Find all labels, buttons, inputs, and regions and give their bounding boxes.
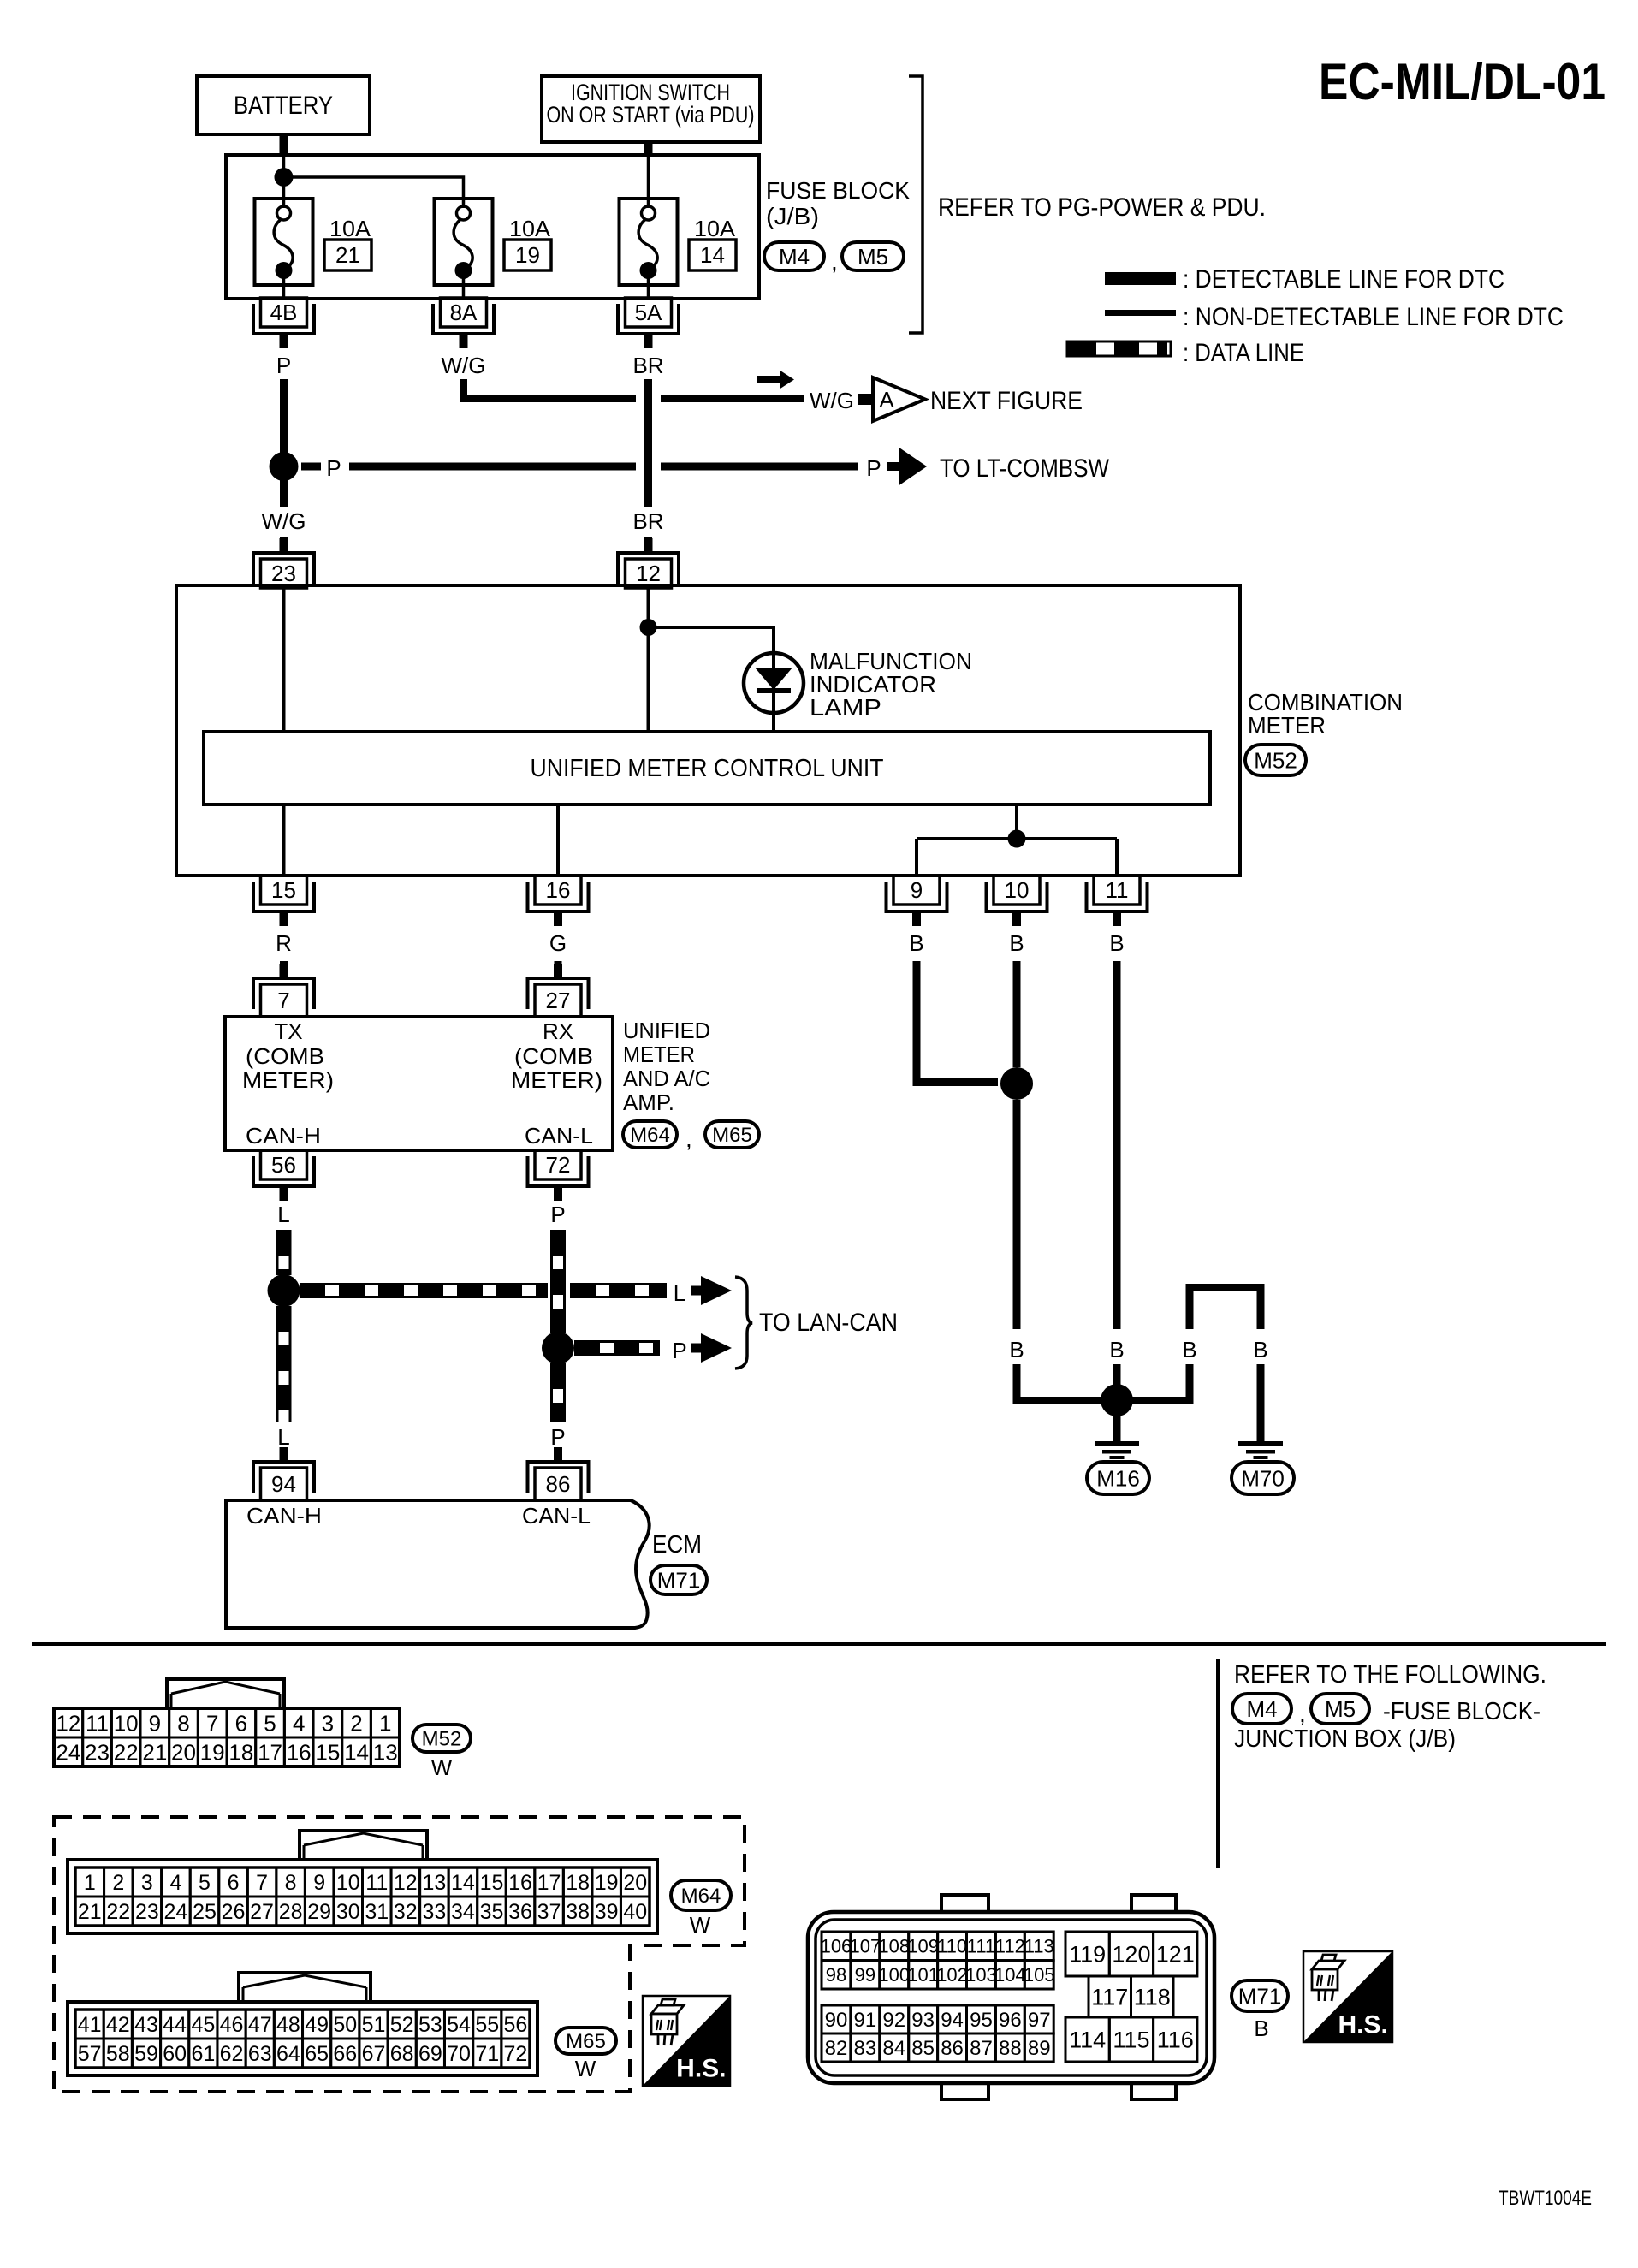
wire P stub to connector 23 <box>280 537 288 551</box>
ignition switch box <box>542 76 760 142</box>
svg-text:101: 101 <box>907 1964 939 1986</box>
svg-text:11: 11 <box>1106 877 1129 903</box>
wire battery to fuse block <box>280 134 288 157</box>
fuse block (J/B) box <box>226 155 759 299</box>
svg-text:W: W <box>575 2056 596 2081</box>
svg-text:49: 49 <box>305 2013 329 2037</box>
svg-text:45: 45 <box>191 2013 215 2037</box>
connector ref M4 bottom <box>1232 1694 1291 1724</box>
svg-text:B: B <box>1182 1337 1196 1363</box>
svg-text:90: 90 <box>825 2009 848 2032</box>
svg-text:15: 15 <box>315 1739 340 1765</box>
svg-text:23: 23 <box>271 561 296 586</box>
svg-text:42: 42 <box>106 2013 130 2037</box>
svg-text:106: 106 <box>821 1936 852 1957</box>
svg-text:M64: M64 <box>630 1124 670 1147</box>
svg-text:CAN-L: CAN-L <box>522 1503 591 1529</box>
M71 shell outer <box>808 1912 1214 2083</box>
svg-text:84: 84 <box>882 2037 905 2060</box>
svg-text:-FUSE BLOCK-: -FUSE BLOCK- <box>1383 1698 1540 1725</box>
svg-text:23: 23 <box>85 1739 110 1765</box>
M71 pin grid upper left <box>822 1932 851 1961</box>
svg-text:1: 1 <box>84 1871 96 1895</box>
svg-text:94: 94 <box>941 2009 964 2032</box>
svg-text:52: 52 <box>390 2013 414 2037</box>
connector 16 <box>535 876 581 905</box>
svg-text:62: 62 <box>220 2042 244 2066</box>
connector ref M71 bottom <box>1231 1980 1288 2011</box>
svg-text:11: 11 <box>365 1871 388 1895</box>
svg-text:CAN-H: CAN-H <box>246 1123 321 1149</box>
svg-text:8: 8 <box>177 1710 189 1736</box>
M65 tab <box>239 1973 371 2002</box>
connector ref M52 <box>1245 745 1306 775</box>
svg-text:14: 14 <box>451 1871 475 1895</box>
wire ignition to fuse block <box>644 142 653 157</box>
svg-text:CAN-H: CAN-H <box>246 1503 322 1529</box>
M71 pin grid 117-118 <box>1089 1976 1131 2017</box>
connector 56 <box>261 1150 307 1179</box>
wire B pin10 to bus <box>1013 1364 1021 1404</box>
data line P upper <box>550 1230 553 1333</box>
svg-text:16: 16 <box>287 1739 312 1765</box>
svg-text:54: 54 <box>447 2013 471 2037</box>
svg-text:18: 18 <box>566 1871 590 1895</box>
svg-text:W/G: W/G <box>442 353 486 378</box>
connector 8A <box>441 298 487 327</box>
svg-text:2: 2 <box>112 1871 124 1895</box>
svg-text:BR: BR <box>632 353 663 378</box>
svg-text:10: 10 <box>336 1871 360 1895</box>
svg-text:33: 33 <box>422 1900 446 1924</box>
svg-text:107: 107 <box>849 1936 881 1957</box>
svg-text:TO LAN-CAN: TO LAN-CAN <box>759 1309 898 1337</box>
connector 11 <box>1094 876 1140 905</box>
svg-text:P: P <box>276 353 291 378</box>
svg-text:51: 51 <box>362 2013 386 2037</box>
svg-text:37: 37 <box>537 1900 561 1924</box>
wire g5 to ground M70 <box>1257 1364 1265 1441</box>
connector ref M65 <box>705 1121 759 1148</box>
svg-text:3: 3 <box>141 1871 153 1895</box>
connector 86 <box>535 1468 581 1500</box>
junction node battery feed <box>275 168 294 187</box>
M64 outer box <box>68 1860 657 1933</box>
svg-text:B: B <box>909 930 923 956</box>
svg-text:64: 64 <box>276 2042 300 2066</box>
connector ref M64 <box>623 1121 677 1148</box>
fuse 21 (10A) <box>255 199 313 285</box>
svg-text:102: 102 <box>936 1964 968 1986</box>
svg-text:109: 109 <box>907 1936 939 1957</box>
svg-text:M71: M71 <box>657 1567 701 1593</box>
svg-text:M71: M71 <box>1238 1983 1282 2009</box>
svg-text:NEXT FIGURE: NEXT FIGURE <box>930 387 1083 415</box>
svg-text:RX: RX <box>543 1018 573 1044</box>
svg-text:AMP.: AMP. <box>623 1089 674 1115</box>
connector 9 <box>893 876 940 905</box>
M71 tab bottom left <box>941 2081 988 2099</box>
svg-text:96: 96 <box>999 2009 1022 2032</box>
svg-text:,: , <box>1299 1701 1306 1727</box>
fuse 14 (10A) <box>620 199 678 285</box>
svg-text:43: 43 <box>134 2013 158 2037</box>
svg-text:82: 82 <box>825 2037 848 2060</box>
malfunction indicator lamp <box>744 653 804 713</box>
svg-text:METER): METER) <box>242 1067 334 1093</box>
svg-text:94: 94 <box>271 1471 296 1497</box>
svg-text:TO LT-COMBSW: TO LT-COMBSW <box>940 454 1110 483</box>
value box 21 <box>324 240 371 270</box>
svg-text:66: 66 <box>333 2042 357 2066</box>
connector ref M4 <box>764 242 824 270</box>
svg-text:22: 22 <box>114 1739 139 1765</box>
svg-text:70: 70 <box>447 2042 471 2066</box>
svg-text:W: W <box>431 1754 453 1780</box>
svg-text:36: 36 <box>508 1900 532 1924</box>
svg-text:92: 92 <box>882 2009 905 2032</box>
M65 outer box <box>68 2002 537 2075</box>
svg-text:61: 61 <box>191 2042 215 2066</box>
connector ref M52 bottom <box>412 1725 471 1752</box>
wire P to LT-COMBSW <box>349 463 636 471</box>
svg-text:11: 11 <box>86 1710 109 1736</box>
connector 12 <box>626 559 672 588</box>
svg-text:22: 22 <box>106 1900 130 1924</box>
svg-text:B: B <box>1109 930 1124 956</box>
svg-text:W: W <box>690 1912 711 1938</box>
wire B pin11 down <box>1113 961 1121 1329</box>
svg-text:19: 19 <box>595 1871 619 1895</box>
wire BR down <box>644 379 652 507</box>
svg-text:44: 44 <box>163 2013 187 2037</box>
svg-text:TBWT1004E: TBWT1004E <box>1499 2187 1592 2210</box>
M65 pin grid <box>75 2010 104 2039</box>
legend non-detectable sample <box>1105 310 1176 316</box>
svg-text:4: 4 <box>293 1710 305 1736</box>
connector ref M5 <box>842 242 904 270</box>
connector 72 <box>535 1150 581 1179</box>
connector 7 <box>261 984 307 1017</box>
M52 tab <box>167 1679 284 1708</box>
svg-text:24: 24 <box>56 1739 80 1765</box>
data line L stub <box>280 1450 288 1463</box>
arrow TO LT-COMBSW <box>887 462 900 471</box>
svg-text:H.S.: H.S. <box>1338 2010 1388 2039</box>
arrow L to LAN-CAN <box>691 1286 703 1296</box>
svg-text:24: 24 <box>164 1900 188 1924</box>
svg-text:M64: M64 <box>681 1885 721 1908</box>
svg-text:M4: M4 <box>1246 1696 1277 1722</box>
svg-text:91: 91 <box>853 2009 876 2032</box>
svg-text:116: 116 <box>1157 2028 1194 2053</box>
svg-text:METER: METER <box>623 1042 695 1067</box>
svg-text:85: 85 <box>911 2037 935 2060</box>
wire battery feed into fuse 21 <box>282 155 286 208</box>
svg-text:29: 29 <box>307 1900 331 1924</box>
svg-text:7: 7 <box>256 1871 268 1895</box>
svg-text:46: 46 <box>220 2013 244 2037</box>
wire B pin11 to bus <box>1113 1364 1121 1404</box>
svg-text:14: 14 <box>700 242 725 268</box>
legend data line sample <box>1067 341 1171 356</box>
wire ignition feed to fuse 14 <box>647 155 650 208</box>
svg-text:60: 60 <box>163 2042 187 2066</box>
svg-text:117: 117 <box>1091 1985 1128 2010</box>
svg-text:111: 111 <box>967 1936 995 1957</box>
wire UMCU to pin 15 <box>282 804 286 876</box>
junction node P <box>270 452 299 481</box>
svg-text:28: 28 <box>279 1900 303 1924</box>
svg-text:P: P <box>672 1338 686 1363</box>
svg-text:B: B <box>1253 1337 1267 1363</box>
M64 pin grid <box>75 1867 104 1897</box>
wire pin12 to UMCU <box>647 589 650 732</box>
ground ref M70 <box>1231 1462 1294 1494</box>
svg-text:23: 23 <box>135 1900 159 1924</box>
ECM box <box>226 1500 650 1628</box>
svg-text:3: 3 <box>322 1710 334 1736</box>
value box 14 <box>689 240 736 270</box>
ground bus bottom <box>1013 1397 1194 1404</box>
svg-text:59: 59 <box>134 2042 158 2066</box>
svg-text:7: 7 <box>206 1710 218 1736</box>
svg-text:BATTERY: BATTERY <box>234 92 333 120</box>
svg-text:G: G <box>549 930 567 956</box>
svg-text:34: 34 <box>451 1900 475 1924</box>
dash P right of junction <box>301 463 321 471</box>
svg-text:10A: 10A <box>509 216 551 241</box>
svg-text:10: 10 <box>1005 877 1030 903</box>
svg-text:88: 88 <box>999 2037 1022 2060</box>
svg-text:: NON-DETECTABLE LINE FOR DTC: : NON-DETECTABLE LINE FOR DTC <box>1183 303 1564 331</box>
brace TO LAN-CAN <box>735 1277 752 1369</box>
small arrow right <box>757 376 781 383</box>
svg-text:19: 19 <box>200 1739 225 1765</box>
value box 19 <box>504 240 551 270</box>
junction node ground bus bottom <box>1101 1384 1133 1416</box>
svg-text:65: 65 <box>305 2042 329 2066</box>
svg-text:86: 86 <box>941 2037 964 2060</box>
wire B pin9 down <box>913 961 921 1086</box>
svg-text:A: A <box>879 387 894 413</box>
svg-text:10A: 10A <box>329 216 371 241</box>
wire branch to MIL lamp <box>649 627 774 654</box>
svg-text:6: 6 <box>228 1871 240 1895</box>
svg-text:17: 17 <box>537 1871 561 1895</box>
svg-text:13: 13 <box>422 1871 446 1895</box>
battery box <box>197 76 370 134</box>
svg-text:13: 13 <box>373 1739 398 1765</box>
svg-text:67: 67 <box>362 2042 386 2066</box>
svg-text:TX: TX <box>274 1018 302 1044</box>
wire BR stub to connector 12 <box>644 537 652 551</box>
svg-text:121: 121 <box>1156 1942 1195 1968</box>
svg-text:47: 47 <box>248 2013 272 2037</box>
M71 shell inner <box>816 1920 1207 2075</box>
junction node CAN-L <box>542 1332 574 1364</box>
svg-text:,: , <box>831 248 838 275</box>
svg-text:M16: M16 <box>1096 1465 1140 1491</box>
wire W/G after BR crossing <box>661 395 804 402</box>
svg-text:M65: M65 <box>712 1124 752 1147</box>
unified meter and A/C amp box <box>225 1017 613 1150</box>
svg-text:H.S.: H.S. <box>676 2055 726 2083</box>
svg-text:97: 97 <box>1028 2009 1051 2032</box>
svg-text:72: 72 <box>546 1152 571 1178</box>
svg-text:21: 21 <box>335 242 360 268</box>
svg-text:ON OR START (via PDU): ON OR START (via PDU) <box>547 102 755 128</box>
svg-text:98: 98 <box>826 1964 846 1986</box>
svg-text:5: 5 <box>264 1710 276 1736</box>
svg-text:UNIFIED: UNIFIED <box>623 1018 710 1043</box>
svg-text:ECM: ECM <box>652 1531 702 1559</box>
svg-text:8A: 8A <box>450 300 478 325</box>
M64 tab <box>300 1831 427 1860</box>
svg-text:12: 12 <box>636 561 661 586</box>
svg-text:119: 119 <box>1069 1942 1106 1968</box>
bracket fuse block note <box>909 76 923 333</box>
wire P down to junction <box>280 379 288 453</box>
svg-text:113: 113 <box>1024 1936 1054 1957</box>
wire junction to fuse 19 <box>284 177 464 208</box>
svg-text:4B: 4B <box>270 300 298 325</box>
wire B pin10 lower <box>1013 1100 1021 1329</box>
connector 23 <box>261 559 307 588</box>
separator line <box>32 1642 1606 1646</box>
svg-text:25: 25 <box>193 1900 217 1924</box>
svg-text:: DETECTABLE LINE FOR DTC: : DETECTABLE LINE FOR DTC <box>1183 265 1504 294</box>
fuse 19 (10A) <box>435 199 493 285</box>
data line P stub <box>554 1450 562 1463</box>
dash before A triangle <box>858 394 873 405</box>
connector ref M65 bottom <box>555 2028 616 2054</box>
wire UMCU to pin 16 <box>556 804 560 876</box>
junction node CAN-H <box>268 1274 300 1307</box>
data line L to LAN-CAN <box>300 1283 548 1285</box>
svg-text:27: 27 <box>546 988 571 1013</box>
svg-text:103: 103 <box>965 1964 997 1986</box>
svg-text:26: 26 <box>222 1900 246 1924</box>
connector ref M71 <box>650 1565 707 1594</box>
M71 tab bottom right <box>1131 2081 1176 2099</box>
svg-text:L: L <box>277 1202 289 1227</box>
connector 10 <box>994 876 1040 905</box>
svg-text:P: P <box>326 455 341 481</box>
svg-text:UNIFIED METER CONTROL UNIT: UNIFIED METER CONTROL UNIT <box>531 755 884 782</box>
connector ref M5 bottom <box>1311 1694 1369 1724</box>
svg-text:METER): METER) <box>511 1067 602 1093</box>
wire R stub <box>280 961 288 976</box>
svg-text:14: 14 <box>344 1739 369 1765</box>
wire B g4 to bus <box>1186 1364 1194 1404</box>
svg-text:86: 86 <box>546 1471 571 1497</box>
svg-text:48: 48 <box>276 2013 300 2037</box>
svg-text:16: 16 <box>508 1871 532 1895</box>
svg-text:9: 9 <box>911 877 923 903</box>
dashed harness box <box>54 1817 745 2092</box>
connector 5A <box>626 298 672 327</box>
svg-text:63: 63 <box>248 2042 272 2066</box>
svg-text:M52: M52 <box>422 1728 462 1751</box>
svg-text:AND A/C: AND A/C <box>623 1066 710 1091</box>
svg-text:5: 5 <box>199 1871 211 1895</box>
svg-text:10A: 10A <box>694 216 736 241</box>
data line P to LAN-CAN <box>574 1340 660 1343</box>
svg-text:9: 9 <box>149 1710 161 1736</box>
svg-text:M4: M4 <box>779 244 810 270</box>
svg-text:39: 39 <box>595 1900 619 1924</box>
svg-text:87: 87 <box>970 2037 993 2060</box>
harness side icon 1 <box>643 1996 730 2086</box>
svg-text:12: 12 <box>56 1710 80 1736</box>
svg-text:110: 110 <box>937 1936 967 1957</box>
M71 pin grid 114-116 <box>1065 2017 1109 2062</box>
svg-text:8: 8 <box>285 1871 297 1895</box>
svg-text:7: 7 <box>277 988 289 1013</box>
svg-text:M65: M65 <box>566 2030 606 2053</box>
svg-text:4: 4 <box>169 1871 181 1895</box>
ground bus inside meter <box>917 837 1117 840</box>
svg-text:112: 112 <box>995 1936 1025 1957</box>
svg-text:JUNCTION BOX (J/B): JUNCTION BOX (J/B) <box>1234 1725 1456 1753</box>
svg-text:20: 20 <box>171 1739 196 1765</box>
data line L lower <box>276 1306 279 1422</box>
svg-text:50: 50 <box>333 2013 357 2037</box>
svg-text:2: 2 <box>350 1710 362 1736</box>
junction node ground bus <box>1008 830 1026 848</box>
wire W/G corner <box>460 379 467 402</box>
svg-text:72: 72 <box>504 2042 528 2066</box>
svg-text:B: B <box>1009 1337 1024 1363</box>
ground ref M16 <box>1087 1462 1149 1494</box>
wire pin23 to UMCU <box>282 589 286 732</box>
svg-text:55: 55 <box>475 2013 499 2037</box>
wire G stub <box>555 961 562 976</box>
M71 tab top right <box>1131 1895 1176 1914</box>
svg-text:104: 104 <box>994 1964 1026 1986</box>
svg-text:69: 69 <box>418 2042 442 2066</box>
svg-text:: DATA LINE: : DATA LINE <box>1183 339 1304 367</box>
svg-text:LAMP: LAMP <box>810 694 881 721</box>
svg-text:M52: M52 <box>1254 747 1297 773</box>
section divider vertical <box>1216 1659 1220 1868</box>
svg-text:6: 6 <box>235 1710 247 1736</box>
svg-text:21: 21 <box>78 1900 102 1924</box>
svg-text:B: B <box>1254 2016 1268 2041</box>
svg-text:21: 21 <box>142 1739 167 1765</box>
svg-text:B: B <box>1109 1337 1124 1363</box>
svg-text:METER: METER <box>1248 712 1326 739</box>
svg-text:EC-MIL/DL-01: EC-MIL/DL-01 <box>1319 53 1605 110</box>
svg-text:9: 9 <box>313 1871 325 1895</box>
svg-text:W/G: W/G <box>262 508 306 534</box>
wire to ground M16 <box>1113 1404 1121 1441</box>
svg-text:99: 99 <box>855 1964 875 1986</box>
svg-text:120: 120 <box>1112 1942 1150 1968</box>
svg-text:BR: BR <box>632 508 663 534</box>
svg-text:L: L <box>674 1280 685 1306</box>
svg-text:,: , <box>685 1125 692 1152</box>
svg-text:FUSE BLOCK: FUSE BLOCK <box>766 177 910 204</box>
junction node MIL branch <box>640 619 657 636</box>
svg-text:M70: M70 <box>1241 1465 1285 1491</box>
svg-text:35: 35 <box>480 1900 504 1924</box>
unified meter control unit box <box>204 732 1210 804</box>
svg-text:P: P <box>866 455 881 481</box>
svg-text:89: 89 <box>1028 2037 1051 2060</box>
svg-text:58: 58 <box>106 2042 130 2066</box>
